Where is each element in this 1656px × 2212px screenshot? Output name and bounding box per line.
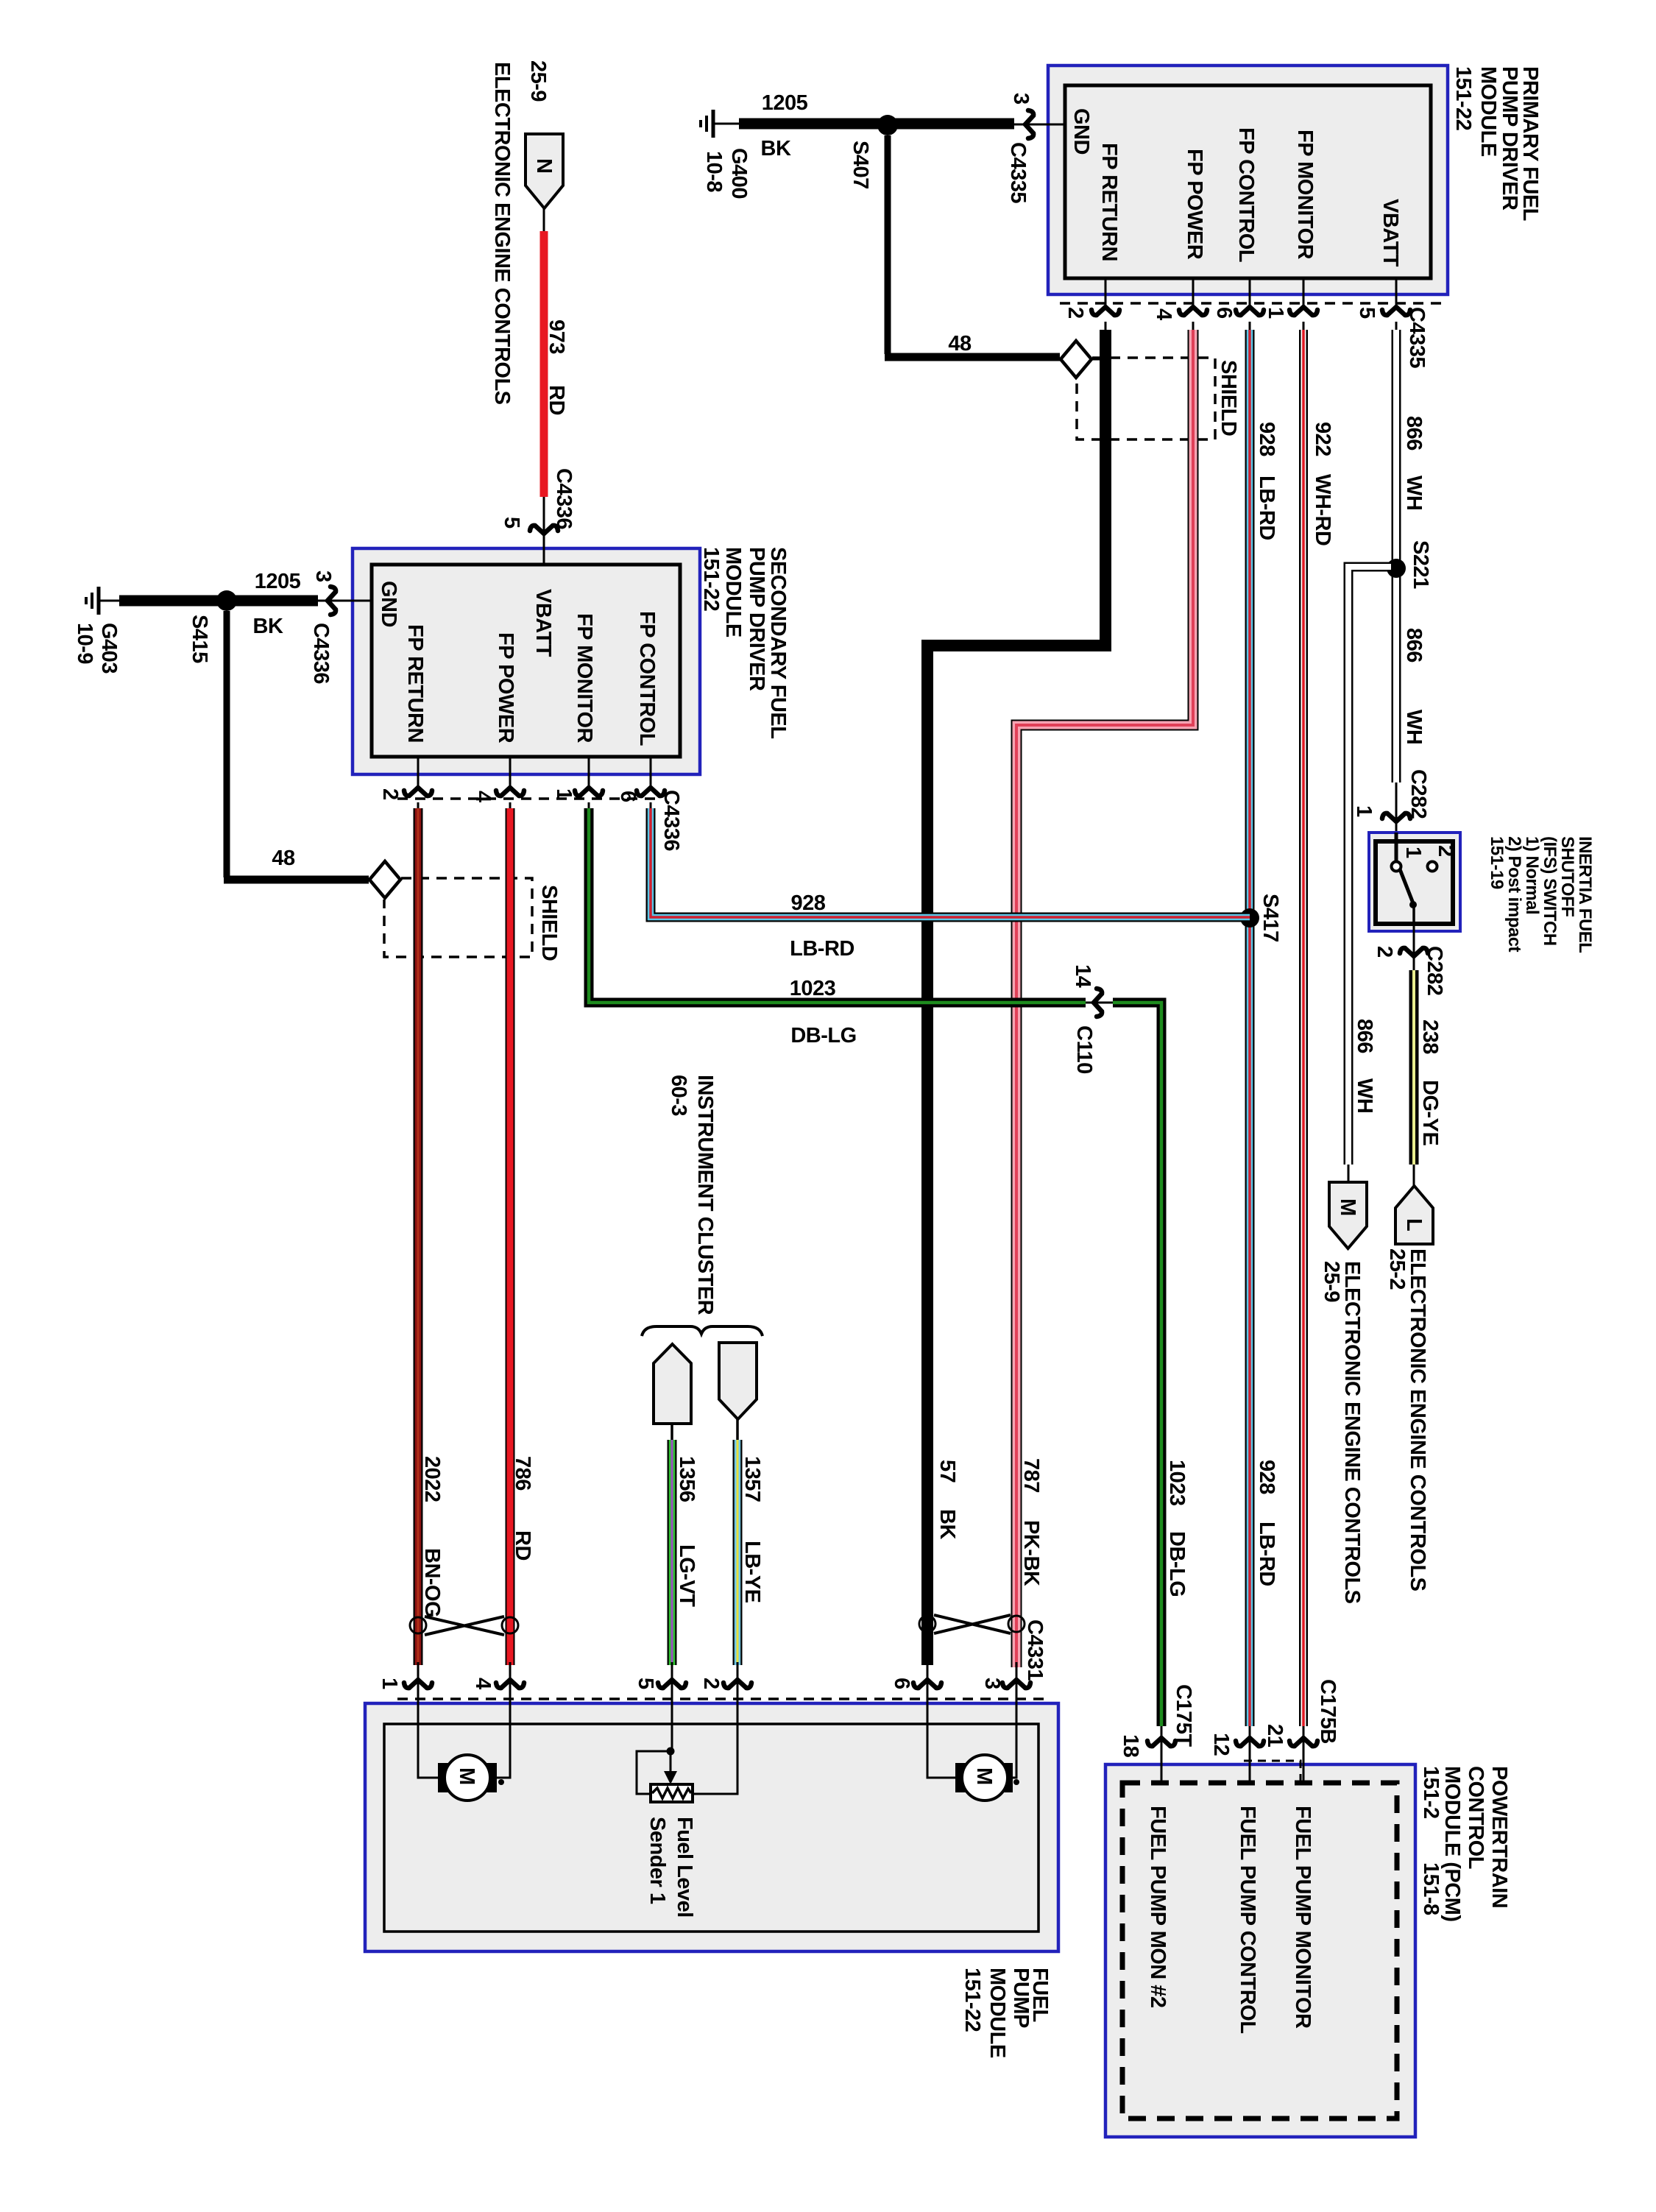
connector pentagon (pin 5) <box>654 1344 691 1424</box>
svg-text:238: 238 <box>1418 1020 1442 1054</box>
svg-text:Sender 1: Sender 1 <box>645 1817 669 1904</box>
svg-text:1: 1 <box>378 1678 401 1689</box>
svg-text:866: 866 <box>1402 416 1426 450</box>
svg-text:6: 6 <box>1212 307 1236 319</box>
svg-text:3: 3 <box>980 1678 1004 1689</box>
connector C4336 pin row (dashed) <box>397 797 657 800</box>
svg-text:LB-RD: LB-RD <box>790 937 854 961</box>
svg-text:973: 973 <box>545 319 568 354</box>
svg-text:FP MONITOR: FP MONITOR <box>1293 130 1317 260</box>
wire: S221 branch 866 WH to M pentagon <box>1348 567 1391 1165</box>
svg-text:LG-VT: LG-VT <box>675 1544 698 1607</box>
svg-text:FP RETURN: FP RETURN <box>1097 143 1121 261</box>
shield dashed box (primary) <box>1077 358 1215 439</box>
splice S415 <box>216 590 237 611</box>
svg-text:C4336: C4336 <box>552 468 576 529</box>
svg-text:PUMP DRIVER: PUMP DRIVER <box>745 547 768 691</box>
svg-text:PUMP DRIVER: PUMP DRIVER <box>1498 66 1521 211</box>
svg-text:INERTIA FUEL: INERTIA FUEL <box>1575 836 1595 953</box>
svg-text:18: 18 <box>1119 1734 1142 1758</box>
svg-text:G400: G400 <box>727 148 751 199</box>
shield dashed box (secondary) <box>384 878 532 957</box>
module: PRIMARY FUEL PUMP DRIVER MODULE 151-22 <box>1048 66 1448 294</box>
shield diamond (secondary) <box>369 879 401 881</box>
svg-text:1023: 1023 <box>1165 1460 1189 1506</box>
svg-text:GND: GND <box>1069 108 1093 155</box>
svg-text:BN-OG: BN-OG <box>420 1548 444 1617</box>
svg-text:WH: WH <box>1402 476 1426 510</box>
svg-text:WH: WH <box>1402 710 1426 744</box>
svg-text:2: 2 <box>1434 845 1457 857</box>
connector pentagon (pin 2) <box>719 1343 757 1419</box>
wire: FP RETURN pin2, heavy BK, becomes 57 BK <box>927 330 1105 1665</box>
svg-text:CONTROL: CONTROL <box>1464 1766 1487 1869</box>
svg-text:151-19: 151-19 <box>1487 836 1507 889</box>
svg-text:VBATT: VBATT <box>1379 199 1402 267</box>
svg-text:MODULE: MODULE <box>1476 66 1500 157</box>
svg-text:6: 6 <box>616 791 640 802</box>
svg-text:L: L <box>1402 1218 1426 1231</box>
wire: 973 RD from N pentagon to VBATT pin 5 C4336 <box>543 208 545 233</box>
svg-text:10-9: 10-9 <box>73 623 96 664</box>
fuel pump motor 2 <box>927 1705 957 1778</box>
wire: FP CONTROL pin6, 928 LB-RD joining S417 <box>651 808 1250 917</box>
svg-text:WH: WH <box>1353 1078 1376 1113</box>
svg-text:ELECTRONIC ENGINE CONTROLS: ELECTRONIC ENGINE CONTROLS <box>1406 1248 1429 1591</box>
ground G403 10-9 <box>99 600 109 602</box>
svg-text:48: 48 <box>948 332 972 356</box>
svg-text:ELECTRONIC ENGINE CONTROLS: ELECTRONIC ENGINE CONTROLS <box>490 62 514 405</box>
wire: 238 DG-YE to L pentagon <box>1409 970 1419 1165</box>
svg-text:1: 1 <box>1352 805 1376 817</box>
shield diamond (primary) <box>1060 358 1100 361</box>
svg-text:BK: BK <box>761 137 791 160</box>
svg-text:5: 5 <box>1355 307 1379 319</box>
svg-text:SHUTOFF: SHUTOFF <box>1557 836 1577 916</box>
svg-text:2022: 2022 <box>420 1456 444 1502</box>
svg-text:151-22: 151-22 <box>699 547 723 611</box>
svg-text:ELECTRONIC ENGINE CONTROLS: ELECTRONIC ENGINE CONTROLS <box>1340 1261 1364 1604</box>
svg-text:LB-RD: LB-RD <box>1255 1522 1278 1586</box>
svg-text:2) Post impact: 2) Post impact <box>1504 836 1524 953</box>
svg-text:RD: RD <box>545 385 568 415</box>
svg-text:FUEL PUMP MON #2: FUEL PUMP MON #2 <box>1146 1806 1170 2008</box>
svg-text:2: 2 <box>378 788 402 800</box>
svg-text:48: 48 <box>272 847 295 870</box>
svg-text:PUMP: PUMP <box>1009 1968 1033 2028</box>
svg-text:MODULE: MODULE <box>986 1968 1009 2058</box>
svg-text:786: 786 <box>511 1456 534 1491</box>
svg-text:25-9: 25-9 <box>526 60 550 102</box>
module: FUEL PUMP MODULE 151-22 <box>365 1703 1058 1951</box>
svg-text:1356: 1356 <box>675 1456 698 1502</box>
svg-text:M: M <box>1336 1198 1359 1216</box>
svg-text:FP CONTROL: FP CONTROL <box>635 611 659 746</box>
twisted pair crossing (2022/786) <box>425 1616 504 1635</box>
svg-text:C4335: C4335 <box>1405 307 1429 368</box>
svg-text:BK: BK <box>935 1509 959 1539</box>
svg-text:(IFS) SWITCH: (IFS) SWITCH <box>1540 836 1560 946</box>
svg-text:C175T: C175T <box>1172 1684 1195 1747</box>
wire: VBATT pin5, 866 WH <box>1392 330 1401 782</box>
svg-text:BK: BK <box>253 615 283 638</box>
wire: shield drain 48 from S407 to shield diamond (primary) <box>885 135 891 354</box>
splice S417 <box>1240 908 1259 927</box>
module: SECONDARY FUEL PUMP DRIVER MODULE 151-22 <box>353 548 700 774</box>
wire: GND pin 3 C4336 to G403 via S415, circuit 1205 BK <box>316 600 372 602</box>
ground G400 10-8 <box>713 123 723 125</box>
svg-text:POWERTRAIN: POWERTRAIN <box>1487 1766 1511 1908</box>
svg-text:G403: G403 <box>97 623 121 674</box>
svg-text:1: 1 <box>1401 847 1425 858</box>
brace <box>642 1326 762 1336</box>
svg-text:MODULE: MODULE <box>721 547 745 637</box>
svg-text:FUEL PUMP CONTROL: FUEL PUMP CONTROL <box>1236 1806 1259 2033</box>
svg-text:INSTRUMENT CLUSTER: INSTRUMENT CLUSTER <box>693 1075 717 1315</box>
fuel level sender <box>671 1705 673 1751</box>
svg-text:LB-RD: LB-RD <box>1255 476 1278 540</box>
svg-text:1205: 1205 <box>762 91 808 115</box>
svg-text:5: 5 <box>500 517 523 529</box>
svg-text:FP RETURN: FP RETURN <box>403 624 427 743</box>
svg-text:787: 787 <box>1019 1458 1043 1493</box>
module: INERTIA FUEL SHUTOFF (IFS) SWITCH 151-19 <box>1369 833 1460 931</box>
svg-text:151-22: 151-22 <box>960 1968 984 2032</box>
svg-text:S417: S417 <box>1259 894 1282 942</box>
svg-text:60-3: 60-3 <box>667 1075 690 1116</box>
svg-text:PK-BK: PK-BK <box>1019 1520 1043 1586</box>
svg-text:12: 12 <box>1209 1733 1233 1756</box>
svg-text:2: 2 <box>699 1678 723 1689</box>
svg-text:1357: 1357 <box>740 1456 764 1502</box>
switch contacts and arm <box>1395 833 1398 862</box>
wire: FP RETURN pin2, 2022 BN-OG <box>414 808 423 1665</box>
svg-text:RD: RD <box>511 1530 534 1561</box>
wire: shield drain 48 from S415 to shield diamond (secondary) <box>224 611 230 877</box>
wire: GND pin 3 C4335 to G400 via S407, circuit 1205 BK <box>1013 124 1065 126</box>
svg-text:GND: GND <box>377 581 400 627</box>
svg-text:928: 928 <box>791 891 826 915</box>
connector pentagon L <box>1395 1186 1433 1244</box>
svg-text:FP CONTROL: FP CONTROL <box>1234 127 1258 262</box>
svg-text:S415: S415 <box>188 615 211 663</box>
svg-text:2: 2 <box>1373 946 1396 958</box>
svg-text:4: 4 <box>471 1678 495 1689</box>
svg-text:M: M <box>455 1767 478 1785</box>
svg-text:S221: S221 <box>1409 540 1432 589</box>
svg-text:5: 5 <box>634 1678 657 1689</box>
svg-text:1) Normal: 1) Normal <box>1522 836 1542 914</box>
connector C282 pin 1 <box>1395 782 1398 841</box>
svg-text:1: 1 <box>1264 307 1287 319</box>
svg-text:10-8: 10-8 <box>702 151 726 192</box>
svg-text:866: 866 <box>1353 1019 1376 1053</box>
wire: FP POWER pin4, 786 RD <box>506 808 515 1665</box>
svg-text:151-8: 151-8 <box>1419 1862 1443 1915</box>
svg-text:DG-YE: DG-YE <box>1418 1080 1442 1146</box>
splice S407 <box>877 115 898 135</box>
svg-text:3: 3 <box>311 570 335 582</box>
connector C4335 pin row (dashed) <box>1060 302 1447 305</box>
svg-text:FP MONITOR: FP MONITOR <box>573 613 596 743</box>
svg-text:DB-LG: DB-LG <box>790 1024 856 1047</box>
fuel pump motor 1 <box>418 1705 439 1778</box>
svg-text:LB-YE: LB-YE <box>740 1541 764 1603</box>
wire: FP MONITOR pin1, 922 WH-RD <box>1299 330 1308 1726</box>
connector C4331 pin row (dashed) <box>397 1697 1045 1700</box>
svg-text:M: M <box>972 1767 996 1785</box>
svg-text:MODULE (PCM): MODULE (PCM) <box>1440 1766 1464 1921</box>
svg-text:4: 4 <box>1152 308 1175 320</box>
svg-text:VBATT: VBATT <box>531 589 555 657</box>
wire: FP POWER pin4, 787 PK-BK <box>1016 330 1193 1667</box>
svg-text:Fuel Level: Fuel Level <box>673 1817 696 1918</box>
svg-text:FP POWER: FP POWER <box>1183 149 1206 260</box>
svg-text:C4331: C4331 <box>1023 1619 1047 1681</box>
wire: FP MONITOR pin1, 1023 DB-LG to C110 then PCM pin18 <box>589 808 1086 1003</box>
svg-text:25-2: 25-2 <box>1385 1248 1409 1290</box>
svg-text:N: N <box>532 158 556 173</box>
svg-text:C4336: C4336 <box>659 790 683 851</box>
module: POWERTRAIN CONTROL MODULE (PCM) 151-2 151-8 <box>1105 1764 1415 2137</box>
connector pentagon M <box>1329 1182 1367 1248</box>
svg-text:151-2: 151-2 <box>1419 1766 1443 1819</box>
svg-text:6: 6 <box>890 1678 913 1689</box>
svg-text:866: 866 <box>1402 628 1426 662</box>
svg-text:SHIELD: SHIELD <box>1217 360 1240 436</box>
svg-text:3: 3 <box>1009 93 1033 105</box>
svg-text:SHIELD: SHIELD <box>537 885 561 961</box>
svg-text:WH-RD: WH-RD <box>1311 474 1334 545</box>
svg-text:922: 922 <box>1311 422 1334 456</box>
svg-text:C4335: C4335 <box>1006 142 1030 203</box>
svg-text:14: 14 <box>1071 964 1094 988</box>
svg-text:151-22: 151-22 <box>1451 66 1475 130</box>
svg-text:S407: S407 <box>849 141 872 189</box>
wire: 1356 LG-VT <box>668 1440 677 1665</box>
svg-text:2: 2 <box>1064 307 1087 319</box>
svg-text:FUEL PUMP MONITOR: FUEL PUMP MONITOR <box>1291 1806 1314 2029</box>
svg-text:1023: 1023 <box>790 977 836 1000</box>
svg-text:C4336: C4336 <box>309 623 333 684</box>
splice S221 <box>1387 559 1406 578</box>
connector pentagon N <box>526 134 563 208</box>
svg-text:1: 1 <box>552 788 576 800</box>
svg-text:DB-LG: DB-LG <box>1165 1531 1189 1597</box>
svg-text:C282: C282 <box>1423 946 1446 995</box>
svg-text:1205: 1205 <box>255 570 301 593</box>
wire: 1357 LB-YE <box>733 1440 743 1665</box>
svg-text:SECONDARY FUEL: SECONDARY FUEL <box>766 547 790 738</box>
svg-text:C282: C282 <box>1406 769 1430 819</box>
wire: FP CONTROL pin6, 928 LB-RD <box>1245 330 1255 1726</box>
svg-text:FP POWER: FP POWER <box>494 632 517 743</box>
svg-text:4: 4 <box>471 791 495 802</box>
connector C175 pins <box>1244 1761 1301 1781</box>
svg-text:57: 57 <box>935 1460 959 1483</box>
svg-text:C175B: C175B <box>1316 1679 1340 1744</box>
svg-text:25-9: 25-9 <box>1320 1261 1343 1302</box>
twisted pair crossing (57/787) <box>934 1615 1011 1633</box>
svg-text:928: 928 <box>1255 422 1278 456</box>
svg-text:C110: C110 <box>1072 1025 1096 1074</box>
connector C282 pin 2 <box>1413 924 1415 972</box>
svg-text:928: 928 <box>1255 1460 1278 1494</box>
svg-text:21: 21 <box>1263 1724 1287 1748</box>
